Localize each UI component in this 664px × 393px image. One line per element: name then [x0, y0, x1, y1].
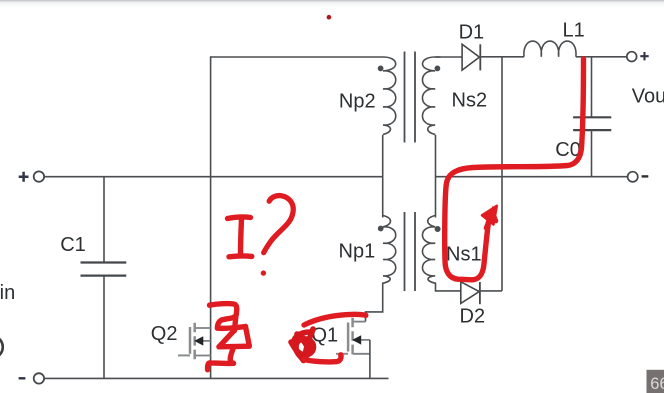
page number box [647, 370, 664, 393]
red annotation: current loop with arrow [445, 59, 584, 280]
svg-text:D1: D1 [459, 21, 485, 43]
wire: rectified node vertical (D1/D2 cathodes) [501, 57, 503, 291]
inductor L1 [524, 41, 576, 57]
red annotation: question mark [264, 196, 294, 253]
transformer core T2 [405, 212, 416, 291]
wire: Np1 bottom to Q1 drain [366, 283, 383, 322]
red annotation: stroke under Q1 [304, 355, 341, 362]
red annotation: question mark dot [261, 270, 266, 275]
polarity dot Np2 [378, 66, 384, 72]
transformer core T1 [405, 52, 416, 143]
svg-text:Vin: Vin [0, 282, 15, 304]
polarity dot Ns2 [435, 66, 441, 72]
svg-text:L1: L1 [563, 20, 585, 42]
decorative arc at left edge [0, 336, 3, 359]
svg-text:Vout: Vout [632, 85, 664, 107]
svg-text:Ns1: Ns1 [446, 243, 482, 265]
wire: D2 cathode to rectified node [479, 290, 502, 292]
wire: + input rail [44, 176, 382, 178]
wire: Ns2 top to D1 anode [436, 56, 463, 58]
terminal + input [19, 171, 44, 181]
wire: Ns2 bottom to Ns1 top (center tap) [435, 135, 437, 218]
red annotation: dot top center [327, 15, 332, 20]
diode D2 [461, 282, 480, 304]
svg-text:Ns2: Ns2 [452, 90, 488, 112]
svg-text:C1: C1 [60, 234, 86, 256]
polarity dot Np1 [378, 226, 384, 232]
red annotation: scribble over Q2 [208, 304, 250, 370]
capacitor C0 [573, 57, 611, 178]
svg-text:D2: D2 [460, 306, 486, 328]
wire: center tap output rail [436, 176, 628, 178]
wire: Q2 drain/source vertical [210, 56, 212, 378]
transformer T2 winding Np1 [383, 215, 396, 283]
wire: Ns1 bottom to D2 anode [436, 283, 461, 291]
capacitor C1 [81, 176, 127, 379]
transformer T2 winding Ns1 [422, 215, 435, 283]
transformer T1 winding Ns2 [422, 57, 440, 135]
red annotation: stroke from Q1 blob to drain [304, 314, 366, 325]
diode D1 [462, 44, 480, 70]
red annotation: arrowhead [482, 206, 497, 225]
svg-text:Q2: Q2 [151, 323, 178, 345]
svg-text:66: 66 [650, 375, 664, 393]
red annotation: scribble blob over Q1 [291, 329, 314, 361]
wire: D1 cathode to L1 [479, 56, 524, 58]
wire: top primary rail [211, 56, 378, 58]
transistor Q1 [336, 318, 370, 379]
terminal - input [19, 373, 44, 383]
transformer T1 winding Np2 [378, 57, 396, 135]
svg-text:Np2: Np2 [339, 91, 376, 113]
terminal + output [627, 52, 649, 62]
wire: bottom input rail [44, 377, 388, 379]
terminal - output [628, 172, 649, 182]
wire: L1 to + output [576, 56, 627, 58]
red annotation: letter I [228, 217, 252, 257]
svg-text:Np1: Np1 [339, 240, 376, 262]
polarity dot Ns1 [435, 226, 441, 232]
wire: Np2 bottom to Np1 top [382, 135, 384, 218]
transistor Q2 [178, 323, 211, 359]
